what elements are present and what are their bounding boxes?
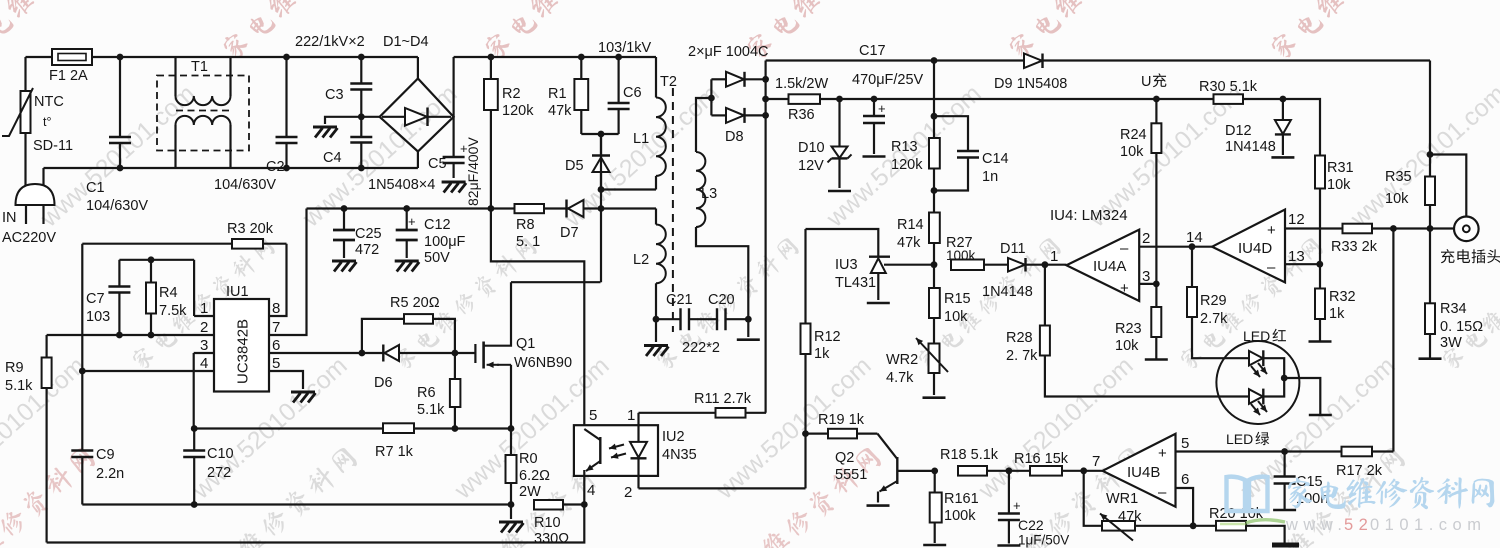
svg-text:1N4148: 1N4148 [982, 284, 1033, 300]
svg-text:2W: 2W [519, 484, 541, 500]
green watermark stroke [1246, 520, 1285, 523]
svg-text:R1: R1 [548, 86, 567, 102]
svg-text:F1 2A: F1 2A [49, 68, 88, 84]
svg-text:6: 6 [272, 337, 280, 354]
svg-text:R30 5.1k: R30 5.1k [1199, 79, 1258, 95]
svg-text:10k: 10k [1327, 177, 1351, 193]
resistor R35 [1429, 61, 1431, 304]
potentiometer WR2 [929, 344, 940, 374]
wire IU4A pin3 [1139, 283, 1156, 285]
ground bar at R32 [1309, 340, 1332, 343]
svg-text:1: 1 [200, 300, 208, 317]
wire pin 4 [82, 370, 214, 372]
charging plug [1430, 155, 1466, 217]
thermistor NTC SD-11 [24, 57, 26, 91]
svg-text:R34: R34 [1440, 301, 1467, 317]
svg-text:2×μF 1004C: 2×μF 1004C [688, 44, 769, 60]
svg-text:R28: R28 [1006, 330, 1033, 346]
svg-text:–: – [1120, 240, 1129, 257]
transistor Q1 W6NB90 [474, 344, 476, 363]
wire ground bus C9 C10 [82, 503, 511, 505]
winding L2 [655, 209, 657, 225]
svg-text:7.5k: 7.5k [159, 303, 187, 319]
svg-text:4.7k: 4.7k [886, 370, 914, 386]
svg-text:C25: C25 [355, 226, 382, 242]
opto transistor [584, 429, 600, 440]
opto LED [637, 413, 639, 442]
resistor R4 [148, 256, 155, 263]
wire pin 3 [194, 352, 214, 354]
svg-text:1k: 1k [1329, 306, 1345, 322]
svg-text:5551: 5551 [835, 467, 867, 483]
svg-text:LED: LED [1243, 328, 1270, 344]
ground bar at TL431 [867, 302, 890, 305]
svg-text:–: – [1267, 259, 1276, 276]
capacitor C10 [191, 425, 198, 432]
svg-text:R31: R31 [1327, 160, 1354, 176]
svg-text:www.: www. [1285, 516, 1347, 534]
svg-text:D10: D10 [798, 140, 825, 156]
capacitor C7 [119, 259, 194, 261]
ground bar at C20 right [745, 316, 752, 323]
ground at R0 [499, 522, 524, 533]
resistor R28 [1044, 265, 1046, 326]
svg-text:IU3: IU3 [835, 257, 858, 273]
svg-text:R14: R14 [897, 217, 924, 233]
ground bar at C17 [863, 155, 886, 158]
svg-text:AC220V: AC220V [2, 230, 56, 246]
resistor R33 [1343, 224, 1373, 234]
svg-text:C9: C9 [96, 447, 115, 463]
op-amp IU4D [1192, 246, 1212, 248]
svg-text:103: 103 [86, 309, 110, 325]
resistor R7 [194, 427, 383, 429]
svg-text:222/1kV×2: 222/1kV×2 [295, 34, 365, 50]
potentiometer WR1 [1084, 471, 1102, 526]
zener diode D10 [836, 96, 843, 103]
resistor R2 [488, 54, 495, 61]
svg-text:104/630V: 104/630V [86, 198, 148, 214]
svg-text:2.2n: 2.2n [96, 466, 124, 482]
svg-text:U: U [1141, 74, 1151, 90]
svg-text:IU4D: IU4D [1238, 240, 1272, 257]
resistor R23 [1151, 307, 1161, 337]
svg-text:120k: 120k [502, 103, 534, 119]
logo url www.520101.com [1285, 516, 1486, 534]
wire LED common to ground [1281, 375, 1288, 382]
capacitor C2 [285, 57, 287, 137]
svg-text:47k: 47k [548, 103, 572, 119]
svg-text:T1: T1 [191, 59, 208, 75]
svg-text:UC3842B: UC3842B [235, 319, 252, 384]
svg-text:C3: C3 [325, 87, 344, 103]
svg-text:R7 1k: R7 1k [375, 444, 414, 460]
svg-text:IU4A: IU4A [1093, 258, 1126, 275]
svg-text:D8: D8 [725, 129, 744, 145]
svg-text:R32: R32 [1329, 289, 1356, 305]
svg-text:52: 52 [1344, 516, 1373, 534]
fuse F1 [52, 49, 92, 65]
wire pin 5 to ground [269, 371, 303, 389]
resistor R5 [362, 319, 404, 353]
svg-text:WR2: WR2 [886, 352, 918, 368]
plug IN AC220V [42, 168, 44, 196]
capacitor C14 [934, 116, 968, 151]
svg-text:L1: L1 [633, 131, 649, 147]
svg-text:R13: R13 [891, 139, 918, 155]
svg-text:R8: R8 [516, 217, 535, 233]
wire Vref branch left edge [81, 244, 83, 371]
resistor R18 [958, 466, 987, 476]
svg-text:t°: t° [43, 115, 51, 129]
svg-text:C17: C17 [859, 43, 886, 59]
svg-text:C20: C20 [708, 292, 735, 308]
svg-text:6.2Ω: 6.2Ω [519, 468, 550, 484]
svg-text:330Ω: 330Ω [534, 531, 569, 547]
svg-text:470μF/25V: 470μF/25V [852, 72, 924, 88]
resistor R30 [1214, 94, 1244, 104]
svg-text:12: 12 [1288, 211, 1305, 228]
svg-text:2. 7k: 2. 7k [1006, 348, 1038, 364]
wire Vcc to opto collector [488, 205, 495, 212]
svg-text:120k: 120k [891, 157, 923, 173]
svg-text:5: 5 [1181, 435, 1189, 452]
diode D6 [362, 352, 383, 354]
svg-text:R16 15k: R16 15k [1014, 451, 1069, 467]
svg-text:www.520101.com: www.520101.com [1497, 352, 1500, 506]
svg-text:C7: C7 [86, 291, 105, 307]
diode D8 pair [710, 79, 712, 115]
svg-text:2: 2 [200, 319, 208, 336]
svg-text:5. 1: 5. 1 [516, 234, 540, 250]
svg-text:R3 20k: R3 20k [227, 221, 274, 237]
wire IU4B pin6 [1176, 488, 1194, 526]
svg-text:D7: D7 [560, 225, 579, 241]
svg-text:1: 1 [1050, 248, 1058, 265]
resistor R0 [508, 425, 515, 432]
svg-text:104/630V: 104/630V [214, 177, 276, 193]
svg-text:D6: D6 [374, 375, 393, 391]
svg-text:LED: LED [1226, 431, 1253, 447]
svg-text:10k: 10k [944, 309, 968, 325]
svg-text:IU2: IU2 [662, 429, 685, 445]
diode D12 [1280, 96, 1287, 103]
diode D11 [1008, 258, 1025, 272]
ground bar at Q2 [867, 504, 890, 507]
svg-text:7: 7 [272, 319, 280, 336]
svg-text:IU4: LM324: IU4: LM324 [1050, 207, 1128, 224]
logo text jiadian weixiu ziliao wang blue [1288, 477, 1494, 510]
wire secondary top rail [766, 59, 1430, 61]
svg-text:1k: 1k [814, 346, 830, 362]
capacitor C9 [81, 371, 83, 451]
capacitor C5 [453, 117, 455, 157]
svg-text:3W: 3W [1440, 335, 1462, 351]
svg-text:100μF: 100μF [424, 234, 466, 250]
svg-text:C12: C12 [424, 217, 451, 233]
transistor Q2 5551 [877, 434, 897, 459]
svg-text:1μF/50V: 1μF/50V [1018, 533, 1069, 548]
ground bar at D10 [828, 190, 851, 193]
svg-text:5.1k: 5.1k [5, 378, 33, 394]
svg-text:W6NB90: W6NB90 [514, 355, 572, 371]
svg-text:C21: C21 [666, 292, 693, 308]
svg-text:C6: C6 [623, 85, 642, 101]
capacitor C6 [615, 54, 622, 61]
wire pin 7 [269, 209, 307, 336]
ground bar at R34 [1419, 357, 1442, 360]
svg-text:10k: 10k [1385, 191, 1409, 207]
svg-text:+: + [1158, 445, 1167, 462]
svg-text:0101.com: 0101.com [1370, 516, 1486, 534]
resistor R11 [639, 412, 716, 414]
svg-text:6: 6 [1181, 471, 1189, 488]
svg-text:R23: R23 [1115, 321, 1142, 337]
wire drain vertical node [600, 134, 602, 282]
resistor R16 [1030, 466, 1062, 476]
transformer T2 core dashed line [672, 88, 674, 332]
ground at L2 bottom [653, 316, 660, 323]
resistor R24 [1153, 96, 1160, 103]
svg-text:C5: C5 [428, 156, 447, 172]
svg-text:D11: D11 [1000, 241, 1026, 257]
svg-text:103/1kV: 103/1kV [598, 40, 652, 56]
capacitor C15 [1281, 448, 1288, 455]
svg-text:50V: 50V [424, 250, 450, 266]
wire opto pin2 to R12 node [639, 487, 806, 489]
svg-text:100k: 100k [944, 508, 976, 524]
svg-text:D9 1N5408: D9 1N5408 [994, 76, 1067, 92]
resistor R34 [1425, 303, 1435, 334]
wire IU4B pin5 [1176, 450, 1394, 452]
svg-text:R35: R35 [1385, 169, 1412, 185]
svg-text:TL431: TL431 [835, 275, 876, 291]
svg-text:10k: 10k [1115, 338, 1139, 354]
wire IU4A pin2 [1139, 246, 1192, 248]
ground bar at R20 [1272, 543, 1299, 548]
capacitor C21 [656, 318, 681, 320]
svg-text:4N35: 4N35 [662, 447, 697, 463]
wire R19 node [802, 430, 809, 437]
svg-text:Q2: Q2 [835, 450, 854, 466]
svg-text:IU1: IU1 [226, 284, 249, 300]
optocoupler IU2 4N35 [574, 425, 658, 476]
LED red [1249, 351, 1263, 366]
LED indicator circle [1216, 341, 1299, 424]
svg-text:12V: 12V [798, 158, 824, 174]
wire pin 2 [47, 334, 214, 336]
bridge rectifier D1-D4 [380, 79, 454, 152]
resistor R20 [1216, 521, 1246, 531]
ground bar at C22 [997, 544, 1020, 547]
svg-text:–: – [1158, 484, 1167, 501]
svg-text:L2: L2 [633, 252, 649, 268]
svg-text:14: 14 [1186, 229, 1203, 246]
ground at pin 5 [291, 392, 316, 403]
svg-text:2: 2 [1142, 230, 1150, 247]
svg-text:47k: 47k [897, 235, 921, 251]
svg-text:5: 5 [589, 407, 597, 424]
svg-text:2: 2 [624, 484, 632, 501]
svg-text:IU4B: IU4B [1127, 464, 1160, 481]
wire pin 1 [194, 315, 214, 317]
resistor R9 [45, 335, 47, 358]
svg-text:D12: D12 [1225, 123, 1252, 139]
svg-text:3: 3 [200, 337, 208, 354]
svg-text:82μF/400V: 82μF/400V [465, 137, 481, 206]
capacitor C4 [350, 137, 372, 143]
svg-text:+: + [408, 214, 416, 229]
svg-text:4: 4 [200, 355, 208, 372]
svg-text:C1: C1 [86, 180, 105, 196]
svg-text:R161: R161 [944, 491, 979, 507]
capacitor C3 [360, 57, 362, 84]
resistor R27 [951, 260, 984, 271]
svg-text:1N4148: 1N4148 [1225, 139, 1276, 155]
wire AC top rail [26, 56, 53, 58]
svg-text:R5 20Ω: R5 20Ω [390, 295, 440, 311]
svg-text:1n: 1n [982, 169, 998, 185]
svg-text:1.5k/2W: 1.5k/2W [775, 76, 828, 92]
wire IU4D pin13 [1285, 263, 1320, 265]
ground at C25 [332, 261, 357, 272]
svg-text:4: 4 [587, 482, 595, 499]
svg-text:10k: 10k [1120, 144, 1144, 160]
IC IU1 UC3842B [214, 299, 269, 392]
capacitor C20 [689, 318, 717, 320]
svg-text:IN: IN [2, 210, 17, 226]
svg-text:R0: R0 [519, 451, 538, 467]
resistor R8 [515, 204, 545, 213]
svg-text:272: 272 [207, 465, 231, 481]
wire R9 feedback bottom [47, 505, 585, 543]
resistor R10 [534, 500, 563, 510]
wire drain link [511, 281, 601, 283]
svg-text:www.520101.com: www.520101.com [1345, 80, 1500, 234]
svg-text:R10: R10 [534, 515, 561, 531]
diode D5 [600, 134, 602, 156]
svg-text:R6: R6 [417, 385, 436, 401]
ground bar at LED [1309, 414, 1332, 417]
winding L3 [696, 98, 711, 152]
svg-text:222*2: 222*2 [682, 340, 720, 356]
svg-text:+: + [878, 101, 886, 116]
wire R1-C6 junction [581, 133, 618, 135]
svg-text:www.520101.com: www.520101.com [973, 352, 1139, 506]
svg-text:R15: R15 [944, 291, 971, 307]
svg-text:0. 15Ω: 0. 15Ω [1440, 319, 1483, 335]
svg-text:WR1: WR1 [1106, 491, 1138, 507]
svg-text:472: 472 [355, 242, 379, 258]
ground at C3/C4 midpoint [325, 117, 361, 124]
svg-text:R11 2.7k: R11 2.7k [694, 391, 752, 407]
svg-text:R29: R29 [1200, 293, 1227, 309]
svg-text:C10: C10 [207, 446, 234, 462]
ground at C12 [395, 261, 420, 272]
ground bar at R161 [923, 544, 946, 547]
ground bar at C15 [1273, 509, 1296, 512]
svg-text:R19 1k: R19 1k [818, 412, 865, 428]
svg-text:8: 8 [272, 300, 280, 317]
svg-text:L3: L3 [701, 186, 717, 202]
wire L1 bottom to drain node [601, 188, 656, 190]
capacitor C25 [341, 205, 348, 212]
svg-text:T2: T2 [660, 74, 677, 90]
svg-text:D5: D5 [565, 158, 584, 174]
wire IU4D pin12 to plug [1285, 227, 1454, 229]
svg-text:C14: C14 [982, 151, 1009, 167]
svg-text:SD-11: SD-11 [33, 138, 73, 154]
capacitor C22 [1006, 467, 1013, 474]
capacitor C12 [403, 205, 410, 212]
resistor R6 [454, 353, 456, 379]
svg-text:R2: R2 [502, 86, 521, 102]
resistor R19 [806, 433, 829, 435]
svg-text:C4: C4 [323, 150, 342, 166]
opto light arrows [609, 445, 624, 449]
ground at C5 [442, 182, 467, 193]
ground bar at WR2 [923, 396, 946, 399]
svg-text:Q1: Q1 [516, 336, 535, 352]
svg-text:R17 2k: R17 2k [1336, 463, 1383, 479]
svg-text:D1~D4: D1~D4 [383, 34, 429, 50]
svg-text:R33 2k: R33 2k [1331, 239, 1378, 255]
winding L1 [655, 57, 657, 98]
wire pin 8 [269, 244, 287, 316]
svg-text:R18 5.1k: R18 5.1k [940, 447, 999, 463]
ground bar at D12 [1271, 156, 1294, 159]
svg-text:2.7k: 2.7k [1200, 311, 1228, 327]
resistor R15 [933, 288, 935, 318]
wire pin6 gate drive [359, 350, 366, 357]
svg-text:+: + [1013, 498, 1021, 513]
svg-text:R36: R36 [788, 107, 815, 123]
svg-text:1: 1 [627, 407, 635, 424]
resistor R29 [1189, 243, 1196, 250]
resistor R1 [578, 54, 585, 61]
wire output+ node [764, 61, 766, 413]
svg-text:R24: R24 [1120, 127, 1147, 143]
svg-text:R4: R4 [159, 285, 178, 301]
wire U-charge rail [766, 99, 1320, 156]
wire AC bottom rail [44, 167, 418, 169]
svg-text:R12: R12 [814, 329, 841, 345]
resistor R31 [1315, 156, 1325, 189]
op-amp IU4B [1080, 467, 1087, 474]
resistor R32 [1319, 264, 1321, 288]
svg-text:7: 7 [1092, 453, 1100, 470]
wire DC+ rail [454, 56, 656, 58]
capacitor C17 [871, 96, 878, 103]
transformer T1 common-mode choke [157, 76, 249, 151]
wire pin 6 [269, 352, 362, 354]
resistor R12 [804, 229, 806, 324]
svg-text:47k: 47k [1118, 509, 1142, 525]
LED green [1249, 389, 1263, 404]
resistor R3 [82, 243, 232, 245]
wire Vcc rail [307, 207, 657, 209]
capacitor C1 [119, 57, 121, 137]
resistor R14 [929, 213, 940, 244]
svg-text:3: 3 [1142, 268, 1150, 285]
svg-text:5: 5 [272, 355, 280, 372]
svg-text:+: + [1120, 280, 1129, 297]
resistor R13 [931, 57, 938, 64]
svg-text:5.1k: 5.1k [417, 402, 445, 418]
svg-text:R9: R9 [5, 360, 24, 376]
logo book icon [1227, 477, 1268, 511]
svg-text:C2: C2 [266, 159, 285, 175]
